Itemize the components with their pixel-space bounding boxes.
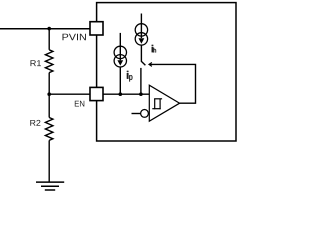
wire: rail down to R1 bbox=[48, 29, 50, 50]
resistor R2 bbox=[45, 118, 53, 141]
label R2 bbox=[30, 120, 40, 126]
node B junction dot at divider tap bbox=[47, 92, 51, 96]
wire: rail down to ground bbox=[48, 140, 50, 182]
label R1 bbox=[31, 60, 42, 66]
op-amp U2 comparator bbox=[149, 85, 179, 121]
wire: inverting input stub bbox=[132, 113, 142, 115]
hysteresis glyph bbox=[152, 99, 162, 109]
wire: rail between R1 and EN tap bbox=[48, 73, 50, 95]
IC boundary U1 bbox=[97, 3, 236, 141]
switch S1 blade bbox=[141, 61, 145, 65]
resistor R1 bbox=[45, 50, 53, 73]
label EN bbox=[75, 101, 85, 107]
node D junction dot (switch branch) bbox=[139, 92, 143, 96]
node C junction dot (ip branch) bbox=[119, 92, 123, 96]
wire: comparator output feedback loop bbox=[149, 64, 195, 103]
node A junction dot at divider top bbox=[47, 27, 51, 31]
arrowhead onto switch bbox=[149, 63, 152, 67]
wire: switch bottom to node bbox=[140, 68, 142, 94]
label ih bbox=[152, 45, 156, 53]
label PVIN bbox=[63, 34, 86, 41]
pin EN box bbox=[90, 87, 103, 100]
ground bbox=[36, 182, 64, 190]
label ip bbox=[127, 71, 132, 82]
wire: top input rail to PVIN bbox=[0, 28, 90, 30]
inverting bubble bbox=[141, 110, 149, 118]
wire: EN pin to comparator input node bbox=[103, 93, 149, 95]
wire: tap to EN pin bbox=[49, 93, 90, 95]
wire: rail between tap and R2 bbox=[48, 94, 50, 117]
current source I1 ip bbox=[114, 33, 126, 94]
pin PVIN box bbox=[90, 22, 103, 35]
current source I2 ih bbox=[135, 14, 147, 62]
